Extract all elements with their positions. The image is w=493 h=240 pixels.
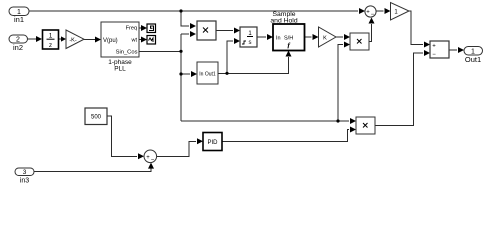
wire product X2 up to sum1 — [369, 24, 372, 42]
wire S/H to gain K2 — [305, 36, 312, 38]
arrowhead into gain G1 — [385, 8, 391, 14]
svg-text:3: 3 — [23, 169, 27, 176]
wire sum3 to Out1 — [449, 49, 457, 51]
arrowhead into In Out1 — [191, 71, 197, 77]
arrowhead into S/H input — [267, 34, 273, 40]
wire bottom horizontal bus — [181, 120, 349, 122]
arrowhead into Out1 — [458, 47, 464, 53]
svg-text:in1: in1 — [14, 15, 24, 24]
svg-text:PID: PID — [207, 140, 218, 146]
arrowhead into sum1 left — [359, 8, 365, 14]
arrowhead into unit delay — [36, 36, 42, 42]
arrowhead into gain K1 — [61, 36, 66, 41]
junction dot bus top — [179, 9, 182, 12]
arrowhead into PID — [197, 138, 203, 144]
wire bottom bus to product X2 lower input — [338, 45, 343, 122]
constant 500 — [85, 108, 107, 125]
svg-text:in2: in2 — [13, 43, 23, 52]
wire in1 horizontal to sum — [29, 10, 358, 12]
arrowhead into sum2 left — [138, 153, 144, 159]
outport Out1 — [464, 47, 483, 65]
sum1 circle — [365, 6, 376, 18]
junction dot bus inout row — [179, 72, 182, 75]
arrowhead into scope2 — [141, 37, 147, 43]
arrowhead into gain K2 — [313, 34, 319, 40]
svg-text:−: − — [432, 52, 436, 58]
arrowhead into product X3 top — [350, 118, 356, 124]
svg-text:wt: wt — [131, 38, 138, 44]
arrowhead into sum3 minus — [424, 50, 430, 56]
svg-text:PLL: PLL — [114, 66, 126, 73]
svg-text:−: − — [371, 12, 375, 18]
svg-text:and Hold: and Hold — [270, 18, 297, 25]
arrowhead into sum1 bottom — [369, 18, 375, 24]
arrowhead into product X1 bottom — [190, 31, 196, 37]
unit delay block 1/z — [43, 30, 59, 49]
wire PID to product X3 lower input — [222, 130, 349, 142]
svg-text:in3: in3 — [20, 178, 29, 185]
wire integrator to S/H — [257, 36, 266, 38]
svg-text:In: In — [276, 36, 281, 42]
wire gain G1 down to sum3 plus input — [409, 11, 423, 45]
svg-text:V(pu): V(pu) — [103, 38, 118, 44]
wire vertical bus x181 — [180, 34, 182, 121]
arrowhead into sum3 plus — [424, 42, 430, 48]
wire PLL Freq to scope1 — [139, 27, 141, 29]
svg-text:In Out1: In Out1 — [199, 72, 216, 78]
arrowhead into S/H trigger — [286, 51, 292, 57]
wire product X3 output to sum3 minus input — [375, 53, 423, 126]
wire gain K1 to PLL — [84, 39, 95, 41]
gain K2 triangle — [319, 27, 337, 47]
wire unit delay to gain K1 — [59, 38, 61, 40]
sample and hold S/H block — [270, 11, 304, 51]
svg-text:+: + — [146, 155, 150, 161]
svg-text:ƒ: ƒ — [287, 41, 291, 50]
svg-text:Out1: Out1 — [465, 55, 481, 64]
wire sum2 to PID — [157, 141, 196, 156]
wire bus branch to product X1 lower input — [181, 33, 189, 35]
In Out1 subsystem — [197, 62, 218, 84]
wire in1 branch down to product X1 top input — [181, 11, 189, 26]
wire product X1 to integrator — [216, 30, 233, 32]
arrowhead into integrator reset — [234, 38, 240, 44]
arrowhead into scope1 — [141, 25, 147, 31]
svg-text:1: 1 — [49, 33, 53, 40]
arrowhead into PLL — [95, 37, 101, 43]
svg-text:Sin_Cos: Sin_Cos — [116, 49, 138, 55]
wire In Out1 output to S/H trigger — [218, 57, 289, 73]
svg-text:−: − — [151, 158, 155, 164]
sum2 circle — [144, 150, 157, 164]
wire constant 500 to sum2 — [107, 116, 137, 156]
product X3 — [356, 117, 375, 134]
wire bus branch to In Out1 subsystem — [181, 73, 190, 75]
inport in1 — [9, 7, 29, 24]
product X1 — [197, 21, 216, 40]
inport in3 — [15, 168, 34, 185]
gain G1 triangle — [391, 3, 410, 21]
svg-text:K: K — [323, 36, 327, 42]
arrowhead into product X2 bottom — [344, 42, 350, 48]
svg-text:s: s — [249, 40, 252, 46]
integrator 1/s with reset — [240, 27, 257, 47]
product X2 — [350, 33, 369, 50]
svg-text:z: z — [49, 42, 52, 49]
svg-text:500: 500 — [91, 115, 102, 121]
wire in3 to sum2 bottom — [34, 165, 151, 172]
svg-text:Freq: Freq — [126, 26, 137, 32]
scope1 — [147, 24, 156, 33]
arrowhead into sum2 bottom — [148, 163, 154, 169]
scope2 — [147, 36, 156, 45]
junction dot bus sincos — [179, 50, 182, 53]
wire reset branch up to integrator — [227, 41, 233, 73]
arrowhead into integrator main — [234, 28, 240, 34]
PLL block — [101, 22, 139, 73]
arrowhead into product X1 top — [190, 23, 196, 29]
PID block — [203, 133, 222, 151]
svg-text:+: + — [432, 44, 436, 50]
wire sum1 to gain G1 — [376, 10, 384, 12]
junction dot reset branch — [225, 72, 228, 75]
wire in2 to unit delay — [27, 38, 36, 40]
wire gain K2 to product X2 — [336, 36, 343, 38]
arrowhead into product X3 bottom — [350, 127, 356, 133]
wire PLL wt to scope2 — [139, 39, 141, 41]
svg-text:+: + — [366, 10, 370, 16]
sum3 rect — [430, 41, 449, 58]
junction dot bottom bus — [336, 119, 339, 122]
gain K1 triangle — [66, 30, 84, 49]
arrowhead into product X2 top — [344, 34, 350, 40]
inport in2 — [9, 35, 28, 52]
wire PLL Sin_Cos to vertical bus — [139, 50, 181, 52]
svg-text:-K-: -K- — [69, 38, 77, 44]
